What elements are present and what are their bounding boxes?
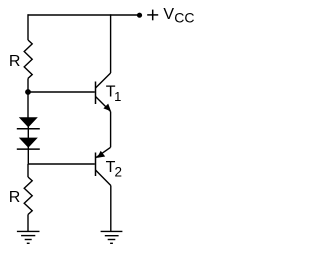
T1 collector diagonal: [96, 73, 111, 88]
svg-text:1: 1: [114, 89, 121, 104]
wire: node A to T1 base: [28, 91, 95, 93]
wire: D1 cathode to D2 anode: [27, 122, 29, 138]
label: + VCC: [147, 6, 194, 26]
node A: junction dot (T1 base node): [25, 89, 31, 95]
wire: resistor R1 bottom to node A: [27, 78, 29, 92]
ground (right): [101, 231, 123, 243]
wire: left branch from rail to resistor R1 top: [27, 14, 29, 40]
label: T2: [106, 159, 122, 180]
wire: node A down to diode D1 anode: [27, 92, 29, 118]
T1 base bar: [95, 82, 97, 105]
resistor R (upper): [24, 40, 32, 78]
wire: resistor R2 bottom to ground: [27, 215, 29, 232]
svg-text:V: V: [163, 6, 174, 23]
svg-text:2: 2: [115, 165, 123, 180]
T2 collector diagonal: [96, 170, 111, 186]
resistor R (lower): [24, 177, 32, 215]
T1 emitter arrow: [103, 104, 111, 112]
wire: T1 emitter down to T2 emitter: [110, 112, 112, 148]
T1 emitter diagonal: [96, 97, 111, 112]
ground (left): [17, 231, 40, 243]
wire: T1 collector up to VCC rail: [110, 14, 112, 73]
diode D1: [17, 117, 40, 129]
svg-text:R: R: [9, 189, 21, 206]
node: VCC terminal dot: [137, 13, 142, 18]
transistor T2 (PNP): [96, 147, 111, 185]
T2 base bar: [95, 153, 97, 177]
svg-text:R: R: [9, 53, 21, 70]
T2 emitter diagonal: [96, 147, 111, 157]
wire: top VCC rail: [28, 14, 140, 16]
wire: node B to T2 base: [28, 163, 95, 165]
diode D2: [17, 138, 40, 150]
wire: node B down to resistor R2 top: [27, 164, 29, 177]
svg-text:CC: CC: [174, 10, 194, 26]
wire: D2 cathode to node B: [27, 142, 29, 164]
wire: T2 collector down to ground: [110, 186, 112, 232]
label: T1: [106, 83, 122, 104]
T2 emitter arrow (PNP, points toward base bar): [97, 151, 105, 158]
transistor T1 (NPN): [96, 73, 112, 112]
